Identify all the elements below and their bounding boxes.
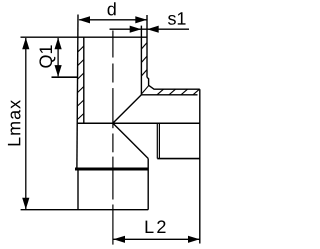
- arrow s1 inner (points right at inner wall): [130, 26, 142, 33]
- right wall inner line (also extension for s1): [140, 26, 142, 95]
- dimension Q1: line, arrows, extension: [52, 38, 78, 77]
- arrow d left: [78, 16, 90, 23]
- label Q1 (rotated): [39, 45, 55, 67]
- label L2: [146, 221, 154, 233]
- jog / transition from vertical pipe to branch outer top: [147, 77, 200, 89]
- technical drawing: 90° tee fitting cross-section with dimensions d, s1, Q1, Lmax, L2: [0, 0, 250, 249]
- bottom face + extension line to the left: [21, 209, 149, 211]
- label d: [108, 2, 116, 15]
- dimension s1: line and arrows: [110, 28, 190, 30]
- left wall inner line: [83, 37, 85, 123]
- arrow Q1 down: [55, 65, 62, 77]
- top face of tee + extension line to the left: [21, 36, 148, 38]
- lower right wall of bottom outlet: [147, 159, 149, 210]
- dimension d: line and arrows: [79, 19, 146, 21]
- crotch diagonal upper (junction to inner corner): [113, 95, 141, 123]
- dimension Lmax: line and arrows: [25, 38, 27, 209]
- arrow s1 outer (points left at outer wall): [147, 26, 159, 33]
- hatching branch top wall: [157, 89, 199, 95]
- centerline of vertical run (dash-dot): [112, 31, 114, 245]
- label Lmax (rotated): [8, 100, 21, 145]
- arrow L2 left: [113, 236, 125, 243]
- arrow d right: [135, 16, 147, 23]
- shoulder step thick line: [75, 168, 148, 171]
- crotch diagonal lower (junction to right wall): [113, 123, 148, 158]
- socket step vertical edge (double line): [156, 123, 158, 158]
- hatching left wall: [77, 46, 84, 120]
- arrow Q1 up: [55, 38, 62, 50]
- arrow Lmax down: [22, 198, 29, 210]
- right wall outer line (also extension for d): [146, 15, 148, 77]
- hatching right wall: [141, 43, 148, 94]
- arrow L2 right: [188, 236, 200, 243]
- label s1: [168, 15, 176, 25]
- left wall outer line (also extension for d): [77, 15, 78, 168]
- lower left wall of bottom outlet: [77, 170, 79, 209]
- branch end face + L2 extension line: [199, 89, 201, 243]
- socket bore bottom line: [157, 158, 200, 160]
- dimension L2: line and arrows: [113, 238, 199, 240]
- bore top / junction horizontal line: [77, 122, 200, 124]
- branch inner top wall line: [141, 94, 197, 96]
- arrow Lmax up: [22, 38, 29, 50]
